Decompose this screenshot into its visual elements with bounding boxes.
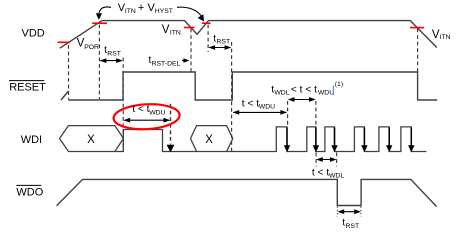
svg-text:WDL: WDL xyxy=(274,90,289,97)
svg-text:X: X xyxy=(205,134,213,146)
svg-text:WDU: WDU xyxy=(149,110,165,117)
svg-text:t < t: t < t xyxy=(312,167,329,178)
svg-text:< t < t: < t < t xyxy=(291,84,317,95)
svg-text:POR: POR xyxy=(84,44,99,51)
svg-text:WDL: WDL xyxy=(329,173,344,180)
svg-text:RST-DEL: RST-DEL xyxy=(152,61,181,68)
svg-text:ITN: ITN xyxy=(125,8,136,15)
svg-text:RST: RST xyxy=(217,39,231,46)
svg-text:V: V xyxy=(162,24,170,36)
svg-text:+: + xyxy=(138,2,144,14)
svg-text:RESET: RESET xyxy=(9,81,46,93)
svg-text:WDO: WDO xyxy=(16,187,43,199)
svg-text:VDD: VDD xyxy=(22,27,45,39)
svg-text:X: X xyxy=(87,134,95,146)
svg-text:ITN: ITN xyxy=(440,34,451,41)
svg-text:HYST: HYST xyxy=(155,8,173,15)
svg-text:RST: RST xyxy=(107,51,121,58)
svg-text:t < t: t < t xyxy=(132,104,149,115)
svg-text:t < t: t < t xyxy=(242,98,259,109)
svg-text:RST: RST xyxy=(346,223,360,230)
svg-text:WDU: WDU xyxy=(259,104,275,111)
svg-text:WDI: WDI xyxy=(21,134,42,146)
svg-text:(1): (1) xyxy=(335,81,343,88)
svg-text:WDU: WDU xyxy=(318,90,334,97)
svg-text:ITN: ITN xyxy=(170,30,181,37)
